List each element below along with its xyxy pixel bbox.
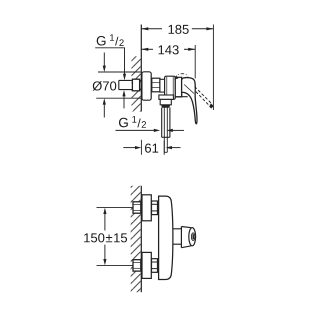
dimension 143 arrowheads [141,48,148,51]
label 61 [145,144,158,153]
wall face line (plan view) [140,186,142,292]
dimension lines for escutcheon diameter [98,71,141,73]
escutcheon Ø70 (side view) [142,72,151,100]
outlet collar [160,99,171,104]
hex union nut (side view) [152,78,160,92]
upper escutcheon [142,195,151,221]
label 150±15 [84,233,127,242]
arrow up to inlet thread underside [123,96,125,108]
knob end cap [189,228,196,246]
cartridge ring [175,77,181,97]
wall hatching (side view) [132,56,142,111]
mixer body cylinder (side view) [165,76,176,99]
cartridge cap bottom edge [175,96,187,98]
thin diagonal line across handle [184,85,194,94]
lever knob seen end-on (plan view) [181,227,191,248]
label 143 [159,45,179,54]
dimension 143 line [141,48,195,50]
pipe centre tick (61) [163,141,165,155]
upper hex nut [152,201,158,215]
wall hatching (plan view) [131,186,142,292]
knob face detail [191,233,194,241]
label G 1/2 (outlet) [119,116,146,128]
leader underline with arrow to outlet pipe [116,129,155,131]
extension line at raised-handle tip (185) [212,25,214,111]
dashed raised-handle outline [195,87,213,105]
body bottom flange [159,95,174,99]
inlet supply stub through wall [119,80,142,89]
label 185 [169,25,189,34]
leader underline and arrow to inlet thread [95,48,124,74]
raised-handle tip [209,103,214,108]
upper connection centreline [97,207,134,209]
handle neck (plan view) [173,229,182,244]
extension line at handle front (143) [194,45,196,78]
dimension 150±15 [104,214,106,231]
rotation dash-dot arc above handle [175,74,188,79]
spacer ring [160,79,165,92]
lower hex nut [152,259,158,273]
dimension 185 line [141,28,213,30]
outlet pipe G1/2 (side view) [162,108,170,153]
mixer body (plan view) [159,196,173,279]
dimension 185 arrowheads [141,27,148,30]
upper union nut behind wall [133,202,141,213]
lower connection centreline [97,264,134,266]
label Ø70 [93,81,117,91]
label G 1/2 (inlet, top left) [97,34,124,46]
lower union nut behind wall [133,260,141,271]
chamfer wedge to outlet [161,105,170,108]
dimension 61 [123,147,135,149]
lever handle (side view) [182,78,197,124]
lower escutcheon [142,252,151,278]
union nut inside wall [132,79,139,91]
opposing arrow to outlet pipe [172,129,184,131]
wall face line with extension (side view) [140,25,142,112]
